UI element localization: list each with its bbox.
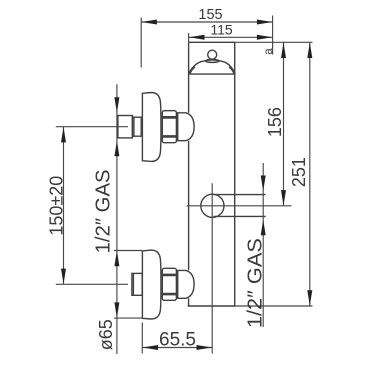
- body top leader line: [235, 41, 313, 43]
- body left edge: [188, 42, 190, 306]
- outlet pipe bottom line: [214, 215, 266, 217]
- top handle: wall stub: [118, 116, 132, 138]
- right 1/2 GAS dimension line: [262, 163, 264, 327]
- svg-text:ø65: ø65: [96, 319, 116, 350]
- knob circle: [208, 50, 217, 59]
- bottom handle: thread: [132, 273, 142, 295]
- dim 115 left extension: [188, 33, 190, 42]
- dome lens: [206, 60, 220, 63]
- svg-text:251: 251: [289, 157, 309, 187]
- dim 115 line: [189, 36, 273, 38]
- svg-text:a: a: [263, 48, 275, 55]
- dim 150±20 line: [63, 127, 65, 285]
- svg-text:150±20: 150±20: [46, 176, 66, 236]
- dim 155 left extension: [140, 18, 142, 68]
- body outline: [188, 42, 235, 306]
- svg-text:1/2″ GAS: 1/2″ GAS: [245, 238, 267, 328]
- top handle: wall flange: [142, 93, 161, 162]
- top handle: connector cap: [178, 113, 194, 141]
- body section line under dome: [189, 73, 234, 75]
- dim ø65 flange bottom leader: [114, 317, 143, 319]
- top handle centerline: [56, 126, 128, 128]
- dome arc left foot: [189, 67, 194, 75]
- dim ø65 arrows: [114, 251, 119, 267]
- outlet pipe top line: [214, 194, 266, 196]
- dims right extension tick: [272, 16, 274, 55]
- dim 155 line: [141, 21, 272, 23]
- dim 156 line: [283, 42, 285, 206]
- outlet horizontal centerline: [187, 205, 292, 207]
- dome arc right foot: [229, 67, 234, 75]
- svg-text:1/2″ GAS: 1/2″ GAS: [93, 169, 115, 253]
- dome cap arc: [190, 60, 235, 74]
- bottom handle: nut: [162, 268, 176, 300]
- bottom handle: wall flange: [142, 250, 161, 319]
- outlet vertical centerline: [211, 183, 213, 353]
- outlet circle: [201, 194, 224, 217]
- top handle: nut: [162, 111, 176, 143]
- dim 251 line: [309, 42, 311, 306]
- bottom handle centerline: [56, 283, 128, 285]
- body bottom leader line: [235, 305, 313, 307]
- top handle: thread: [132, 117, 141, 136]
- dim ø65 flange top leader: [114, 250, 143, 252]
- bottom handle: connector cap: [178, 270, 194, 298]
- left 1/2 GAS dimension line: [116, 84, 118, 354]
- dim 65.5 line: [142, 347, 212, 349]
- svg-text:115: 115: [210, 22, 233, 38]
- dim 65.5 left extension: [141, 323, 143, 354]
- svg-text:65.5: 65.5: [159, 329, 196, 350]
- svg-text:156: 156: [265, 107, 285, 137]
